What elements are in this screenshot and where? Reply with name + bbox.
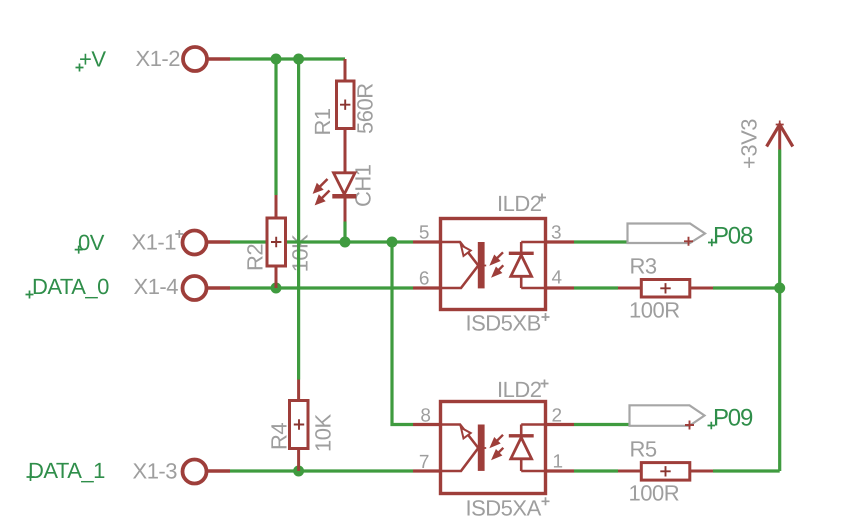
svg-text:ILD2: ILD2 [497, 191, 542, 216]
op-to-coupler U2 ISD5XA box [413, 402, 574, 494]
svg-text:4: 4 [552, 268, 563, 289]
op-to-coupler U1 ISD5XB box [413, 219, 574, 310]
U1 pin 3 stub [546, 240, 575, 243]
U2 phototransistor [441, 425, 479, 449]
U2 light arrows [496, 435, 504, 442]
wire +V to R4 [297, 59, 300, 380]
resistor R3 [618, 280, 713, 298]
junction at +V / R2 [271, 54, 282, 65]
svg-text:CH1: CH1 [351, 164, 376, 207]
resistor R1 [337, 59, 355, 173]
svg-text:560R: 560R [353, 83, 378, 134]
svg-text:100R: 100R [629, 298, 680, 323]
svg-text:X1-1: X1-1 [132, 230, 177, 255]
svg-text:10K: 10K [311, 414, 336, 452]
wire CH1 cathode to 0V [343, 222, 346, 243]
svg-text:+3V3: +3V3 [737, 119, 762, 169]
wire DATA_0 run [230, 286, 413, 289]
U1 light arrows [496, 252, 504, 259]
label ILD2 (U1) [497, 191, 546, 216]
wire +V to R2 [274, 59, 277, 195]
U1 pin 5 stub [413, 240, 441, 243]
svg-text:6: 6 [419, 269, 430, 290]
label 0V [75, 230, 105, 255]
U1 photodiode [520, 242, 523, 252]
label ISD5XA [466, 496, 550, 521]
wire opto2 pin1 to R5 [574, 469, 618, 472]
wire R5 to +3V3 rail [713, 469, 780, 472]
label +V [76, 47, 107, 72]
connector pin X1-4 [183, 276, 231, 300]
U2 photodiode [520, 425, 523, 435]
svg-text:R4: R4 [267, 423, 292, 450]
svg-text:100R: 100R [629, 481, 680, 506]
junction at +V / R4 [293, 54, 304, 65]
label ILD2 (U2) [497, 377, 549, 402]
svg-text:0V: 0V [78, 230, 105, 255]
svg-text:DATA_1: DATA_1 [28, 458, 105, 483]
wire DATA_1 run [230, 469, 413, 472]
svg-text:1: 1 [553, 452, 564, 473]
label DATA_0 [26, 274, 110, 299]
U2 pin 2 stub [546, 423, 575, 426]
wire opto1 pin3 to P08 [574, 240, 628, 243]
resistor R2 [267, 195, 286, 288]
junction at 0V / opto2 branch [387, 237, 398, 248]
svg-text:5: 5 [419, 223, 430, 244]
svg-text:X1-2: X1-2 [136, 46, 181, 71]
svg-text:X1-4: X1-4 [134, 274, 179, 299]
wire +V rail [230, 57, 345, 60]
wire opto1 pin4 to R3 [574, 286, 618, 289]
svg-text:P08: P08 [713, 222, 753, 249]
wire R3 to +3V3 rail [713, 286, 780, 289]
net flag P09 [630, 404, 753, 431]
connector pin X1-2 [183, 47, 230, 71]
resistor R4 [290, 380, 309, 472]
junction at DATA_0 / R2 [271, 283, 282, 294]
svg-text:DATA_0: DATA_0 [32, 274, 109, 299]
junction at DATA_1 / R4 [293, 466, 304, 477]
svg-text:R5: R5 [630, 437, 657, 462]
label ISD5XB [466, 311, 550, 336]
U2 pin 8 stub [413, 423, 441, 426]
svg-text:ISD5XB: ISD5XB [466, 311, 541, 336]
resistor R5 [618, 463, 713, 481]
svg-text:R2: R2 [243, 244, 268, 271]
LED CH1 [314, 173, 357, 222]
U2 pin 7 stub [413, 469, 441, 472]
svg-text:3: 3 [551, 223, 562, 244]
svg-text:X1-3: X1-3 [133, 459, 178, 484]
svg-text:R1: R1 [310, 108, 335, 135]
connector pin X1-3 [183, 460, 231, 484]
junction at R3 / +3V3 [774, 283, 785, 294]
svg-text:ISD5XA: ISD5XA [466, 496, 542, 521]
wire 0V run [230, 240, 413, 243]
U2 pin 1 stub [546, 469, 575, 472]
svg-text:P09: P09 [713, 404, 753, 431]
U1 pin 4 stub [546, 286, 575, 289]
label DATA_1 [27, 458, 106, 483]
connector pin X1-1 [183, 231, 231, 255]
U1 pin 6 stub [413, 286, 441, 289]
supply symbol +3V3 [767, 121, 793, 150]
wire opto2 pin2 to P09 [574, 423, 630, 426]
pin name X1-1 [132, 230, 184, 255]
U1 phototransistor [441, 242, 479, 266]
junction at 0V / CH1 [340, 237, 351, 248]
wire +3V3 vertical rail [778, 150, 781, 472]
svg-text:ILD2: ILD2 [497, 377, 542, 402]
net flag P08 [628, 222, 753, 249]
svg-text:R3: R3 [630, 254, 657, 279]
wire 0V node to opto2 pin8 [392, 242, 413, 425]
